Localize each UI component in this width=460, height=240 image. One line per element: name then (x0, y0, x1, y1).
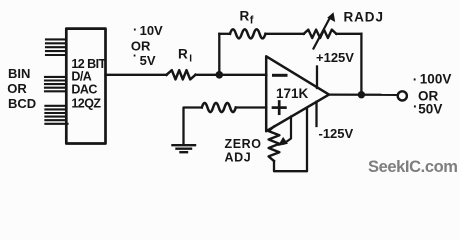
node A junction dot (inverting input / feedback) (216, 71, 224, 79)
DAC U1 box: 12 BIT D/A DAC 12QZ (66, 29, 105, 144)
svg-text:·: · (413, 99, 418, 114)
DAC input pins group 1 (bits 1-5) (46, 39, 66, 55)
ZERO ADJ wiper arrow (284, 117, 291, 144)
svg-text:OR: OR (7, 81, 27, 96)
svg-text:·: · (133, 22, 137, 37)
svg-text:·: · (413, 72, 418, 87)
svg-text:171K: 171K (276, 86, 309, 101)
resistor R2 (non-inverting bias) (202, 103, 236, 112)
svg-text:-125V: -125V (319, 126, 354, 141)
wire: ground branch to non-inverting resistor (184, 108, 202, 144)
svg-text:R: R (178, 47, 188, 62)
svg-text:12QZ: 12QZ (71, 96, 101, 110)
svg-text:100V: 100V (420, 71, 452, 86)
wire: DAC output to op-amp inverting input (106, 74, 167, 76)
ground (173, 145, 196, 152)
DAC input pins group 3 (bits 11-12) (45, 106, 67, 124)
resistor RI (167, 70, 196, 79)
DAC input pins group 2 (bits 6-10) (45, 77, 66, 91)
svg-text:ADJ: ADJ (225, 151, 252, 165)
wire: RF to RADJ (266, 33, 304, 35)
svg-text:50V: 50V (418, 102, 442, 117)
svg-text:BCD: BCD (8, 96, 36, 111)
label ±10V OR ±5V (131, 22, 163, 68)
svg-text:BIN: BIN (8, 66, 30, 81)
power -125V supply lead (315, 102, 317, 126)
wire: ZERO ADJ bottom lead to offset pin (274, 108, 307, 171)
wire: feedback top run (left of RF) (219, 33, 230, 35)
wire: feedback left vertical riser (218, 34, 220, 75)
svg-text:R: R (240, 9, 250, 24)
wire: op-amp output (329, 93, 398, 96)
wire: RADJ to right feedback corner (336, 33, 361, 35)
svg-text:·: · (133, 48, 137, 63)
power +125V supply lead (316, 67, 318, 89)
op-amp U2 triangle (266, 56, 329, 131)
label DAC: 12 BIT / D/A / DAC / 12QZ (71, 57, 106, 111)
svg-text:ZERO: ZERO (225, 137, 262, 151)
svg-text:I: I (189, 54, 192, 65)
resistor RF (230, 29, 266, 38)
svg-text:SeekIC.com: SeekIC.com (368, 158, 458, 176)
label ±100V OR ±50V (413, 71, 452, 116)
RADJ wiper arrow (314, 19, 330, 49)
wire: feedback right vertical to output node (360, 34, 362, 95)
wire: RI to inverting input (196, 74, 267, 76)
svg-text:RADJ: RADJ (344, 10, 384, 25)
output terminal circle (398, 91, 407, 100)
label BIN OR BCD (7, 66, 36, 111)
svg-text:DAC: DAC (71, 82, 97, 96)
svg-text:+125V: +125V (316, 50, 354, 65)
svg-text:10V: 10V (140, 23, 163, 38)
svg-text:f: f (250, 15, 254, 27)
potentiometer ZERO ADJ body (269, 127, 280, 162)
potentiometer RADJ (rheostat) (304, 30, 337, 38)
node B output junction dot (358, 91, 365, 98)
svg-text:5V: 5V (140, 53, 156, 68)
op-amp minus sign (inverting input marker) (274, 74, 287, 77)
svg-text:12 BIT: 12 BIT (71, 57, 106, 71)
op-amp plus sign (non-inverting input marker) (278, 102, 281, 114)
wire: R2 to non-inverting input (236, 106, 266, 108)
